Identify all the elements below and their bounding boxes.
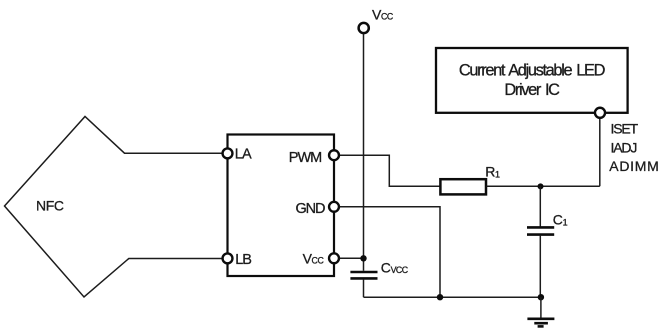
wire C1 to bottom bbox=[539, 236, 541, 298]
wire bottom rail bbox=[364, 296, 541, 298]
Current Adjustable LED Driver IC box bbox=[436, 48, 628, 113]
pin LB bbox=[223, 253, 233, 263]
svg-text:ADIMM: ADIMM bbox=[609, 158, 659, 174]
svg-text:CVCC: CVCC bbox=[381, 260, 409, 276]
wire R1 to junction bbox=[486, 185, 540, 187]
resistor R1 bbox=[440, 179, 486, 194]
pin ISET circle bbox=[595, 108, 605, 118]
wire GND to down bbox=[334, 207, 440, 297]
svg-text:NFC: NFC bbox=[36, 198, 64, 214]
capacitor Cvcc bbox=[350, 271, 377, 274]
svg-text:PWM: PWM bbox=[289, 150, 321, 166]
junction dot B bbox=[360, 255, 366, 261]
pin VCC bbox=[329, 253, 339, 263]
wire ISET to junction bbox=[540, 185, 600, 187]
svg-text:LB: LB bbox=[235, 252, 251, 268]
wire junction to C1 bbox=[539, 186, 541, 226]
svg-text:Driver IC: Driver IC bbox=[504, 81, 560, 99]
pin PWM bbox=[329, 150, 339, 160]
pin LA bbox=[223, 148, 233, 158]
junction dot C bbox=[437, 294, 443, 300]
svg-text:VCC: VCC bbox=[372, 6, 394, 22]
IC block U1 bbox=[228, 135, 335, 277]
svg-text:Current Adjustable LED: Current Adjustable LED bbox=[459, 61, 606, 79]
svg-text:VCC: VCC bbox=[303, 250, 325, 266]
svg-text:LA: LA bbox=[235, 147, 252, 163]
svg-text:R1: R1 bbox=[485, 164, 500, 180]
svg-text:C1: C1 bbox=[553, 212, 568, 228]
svg-text:IADJ: IADJ bbox=[611, 139, 637, 155]
wire Vcc pin to junction bbox=[334, 257, 364, 259]
capacitor C1 bbox=[527, 226, 554, 229]
pin GND bbox=[329, 202, 339, 212]
wire Vcc vertical bbox=[363, 34, 365, 271]
wire Vcc below Cvcc bbox=[363, 280, 365, 298]
junction dot A bbox=[538, 183, 544, 189]
junction dot D bbox=[538, 294, 544, 300]
svg-text:GND: GND bbox=[296, 201, 326, 217]
svg-text:ISET: ISET bbox=[611, 120, 639, 136]
wire ISET vertical bbox=[599, 113, 601, 186]
antenna NFC bbox=[5, 117, 228, 298]
wire PWM to R1 bbox=[334, 155, 440, 186]
ground bbox=[527, 297, 554, 326]
Vcc supply terminal bbox=[359, 23, 369, 33]
